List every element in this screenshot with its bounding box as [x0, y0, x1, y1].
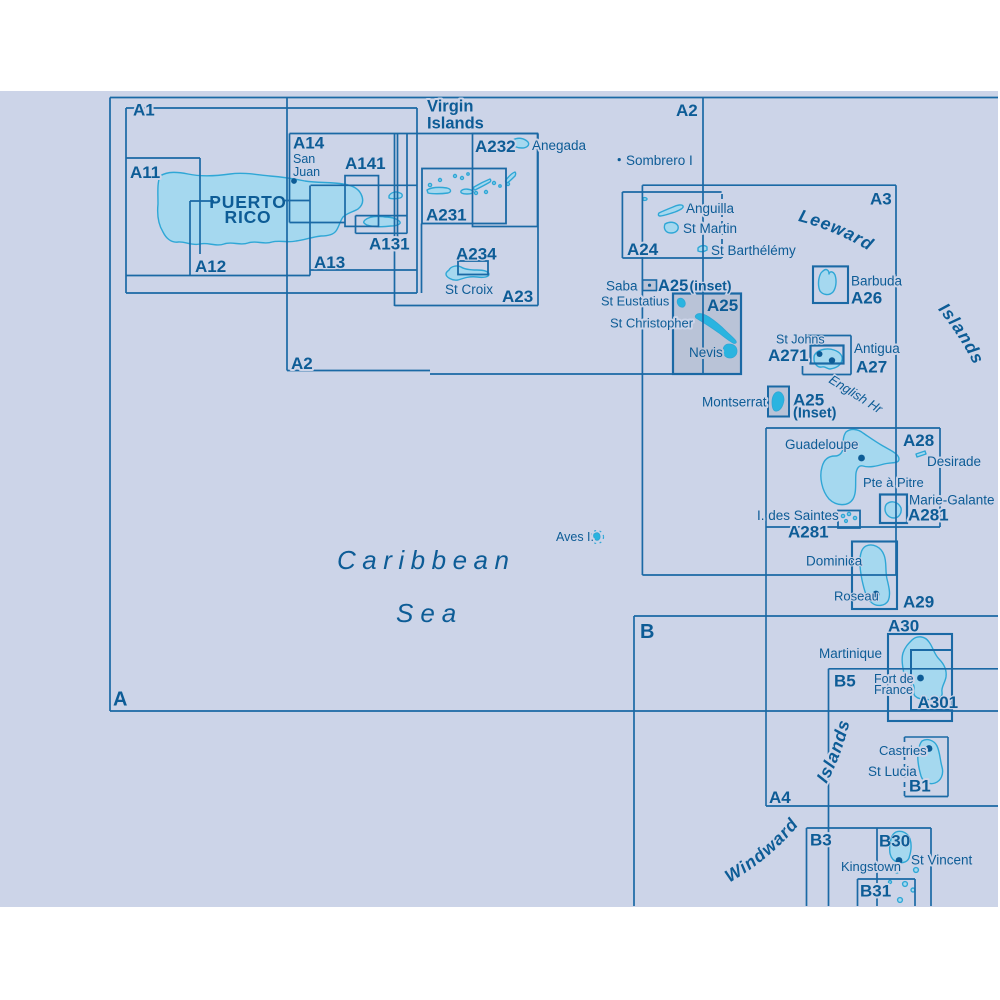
svg-text:B31: B31 [860, 882, 891, 901]
svg-text:B5: B5 [834, 672, 856, 691]
svg-text:A28: A28 [903, 431, 934, 450]
svg-text:Virgin: Virgin [427, 98, 473, 116]
svg-text:A1: A1 [133, 101, 155, 120]
svg-text:Dominica: Dominica [806, 554, 863, 569]
svg-text:Juan: Juan [293, 165, 320, 179]
svg-text:Caribbean: Caribbean [337, 545, 515, 575]
svg-text:A2: A2 [291, 354, 313, 373]
svg-text:A30: A30 [888, 617, 919, 636]
svg-text:A26: A26 [851, 289, 882, 308]
svg-text:Islands: Islands [427, 115, 484, 133]
svg-text:A24: A24 [627, 240, 659, 259]
svg-text:A281: A281 [908, 506, 949, 525]
svg-text:(Inset): (Inset) [793, 406, 837, 422]
svg-text:B3: B3 [810, 831, 832, 850]
svg-text:St Barthélémy: St Barthélémy [711, 243, 796, 258]
svg-text:A11: A11 [130, 163, 160, 182]
svg-text:A27: A27 [856, 358, 887, 377]
svg-text:RICO: RICO [225, 207, 272, 227]
svg-text:St Christopher: St Christopher [610, 316, 694, 331]
svg-text:Sombrero I: Sombrero I [626, 153, 693, 168]
svg-text:A14: A14 [293, 134, 325, 153]
svg-text:A3: A3 [870, 190, 892, 209]
svg-text:St Lucia: St Lucia [868, 764, 917, 779]
svg-text:A13: A13 [314, 253, 345, 272]
svg-text:A301: A301 [918, 693, 959, 712]
svg-text:Saba: Saba [606, 279, 638, 294]
svg-text:A12: A12 [195, 257, 226, 276]
svg-text:A23: A23 [502, 287, 533, 306]
svg-text:A131: A131 [369, 235, 410, 254]
svg-text:Castries: Castries [879, 743, 927, 758]
svg-text:B: B [640, 621, 654, 643]
svg-text:Roseau: Roseau [834, 589, 879, 604]
svg-text:Anegada: Anegada [532, 138, 587, 153]
svg-text:Marie-Galante: Marie-Galante [909, 493, 995, 508]
svg-text:San: San [293, 152, 315, 166]
svg-text:B1: B1 [909, 777, 931, 796]
svg-text:A: A [113, 689, 127, 711]
svg-text:A4: A4 [769, 788, 791, 807]
svg-text:St Croix: St Croix [445, 282, 493, 297]
svg-text:A231: A231 [426, 206, 467, 225]
svg-text:A141: A141 [345, 154, 386, 173]
svg-text:Sea: Sea [396, 598, 463, 628]
svg-text:Kingstown: Kingstown [841, 859, 901, 874]
svg-text:St Eustatius: St Eustatius [601, 294, 669, 309]
svg-text:Barbuda: Barbuda [851, 274, 903, 289]
svg-text:A2: A2 [676, 101, 698, 120]
svg-text:I. des Saintes: I. des Saintes [757, 508, 839, 523]
svg-text:A232: A232 [475, 137, 516, 156]
svg-text:Pte à Pitre: Pte à Pitre [863, 475, 924, 490]
svg-text:Montserrat: Montserrat [702, 395, 767, 410]
svg-text:(inset): (inset) [690, 278, 732, 294]
svg-text:B30: B30 [879, 832, 910, 851]
svg-text:Martinique: Martinique [819, 646, 882, 661]
svg-text:France: France [874, 683, 913, 697]
svg-text:St Johns: St Johns [776, 333, 825, 347]
svg-text:Antigua: Antigua [854, 341, 900, 356]
svg-text:Aves I.: Aves I. [556, 530, 594, 544]
svg-text:Nevis: Nevis [689, 345, 723, 360]
svg-text:St Vincent: St Vincent [911, 853, 973, 868]
svg-text:A25: A25 [707, 296, 738, 315]
svg-text:Guadeloupe: Guadeloupe [785, 437, 859, 452]
svg-text:A234: A234 [456, 245, 497, 264]
svg-text:Desirade: Desirade [927, 454, 981, 469]
svg-text:A271: A271 [768, 346, 809, 365]
svg-text:A281: A281 [788, 523, 829, 542]
svg-text:St Martin: St Martin [683, 221, 737, 236]
svg-text:A25: A25 [658, 277, 688, 295]
svg-text:Anguilla: Anguilla [686, 201, 735, 216]
svg-text:A29: A29 [903, 593, 934, 612]
